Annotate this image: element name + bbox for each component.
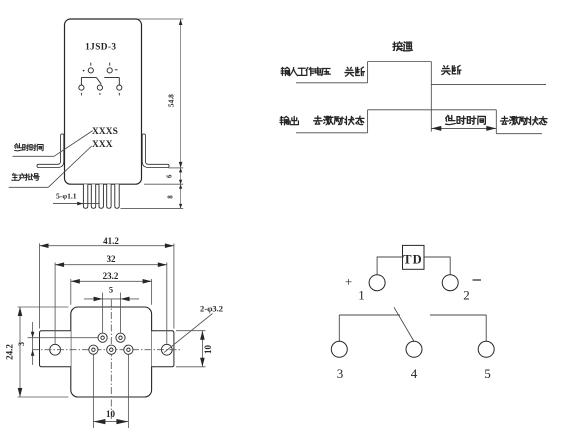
svg-text:3: 3 bbox=[17, 342, 26, 346]
wire drop to terminal 3 bbox=[338, 315, 340, 341]
dimension 41.2 bbox=[40, 245, 174, 247]
extension line right hole up bbox=[166, 262, 168, 344]
extension line body right up bbox=[151, 279, 153, 305]
pin number mark 2 bbox=[109, 63, 111, 66]
input waveform rising edge bbox=[367, 62, 369, 83]
svg-text:5-φ1.1: 5-φ1.1 bbox=[56, 192, 77, 201]
dimension 23.2 bbox=[71, 280, 152, 282]
pin 4 (side view) bbox=[107, 184, 111, 208]
dimension 10 (tab height) bbox=[201, 331, 203, 367]
label 生产批号 (production batch no.) bbox=[12, 173, 40, 180]
extension line right tab outer up bbox=[173, 243, 175, 328]
label 关断 (off) left bbox=[345, 67, 364, 76]
right mounting hole φ3.2 bbox=[161, 344, 172, 355]
pin 2 (side view) bbox=[91, 184, 95, 208]
wire contact bar left bbox=[339, 314, 400, 316]
contact circle 3 (marking) bbox=[79, 85, 84, 90]
extension line pin2 up bbox=[120, 293, 122, 334]
pin 5 (bottom view) bbox=[124, 345, 133, 354]
terminal circle 1 bbox=[369, 275, 385, 291]
relay body outline (side view) bbox=[65, 19, 142, 184]
svg-text:10: 10 bbox=[106, 409, 116, 419]
terminal circle 2 bbox=[442, 275, 458, 291]
pin number mark 4 bbox=[99, 93, 101, 95]
svg-text:TD: TD bbox=[403, 253, 423, 267]
extension line right tab bottom bbox=[176, 366, 206, 368]
left mounting tab bbox=[40, 331, 71, 367]
label 去激励状态 (de-energized) left bbox=[314, 116, 364, 125]
delay dimension arrow line bbox=[431, 127, 496, 129]
dimension 3 bbox=[32, 322, 34, 365]
svg-text:5: 5 bbox=[484, 366, 491, 381]
input waveform high bbox=[368, 61, 432, 63]
label 延时时间 (delay time) bbox=[446, 115, 486, 124]
output waveform high bbox=[368, 109, 497, 111]
output waveform low-right bbox=[496, 133, 542, 135]
svg-text:2-φ3.2: 2-φ3.2 bbox=[200, 304, 223, 314]
right mounting bracket bbox=[144, 136, 168, 166]
svg-text:24.2: 24.2 bbox=[5, 344, 15, 360]
extension line body left up bbox=[70, 279, 72, 305]
svg-text:5: 5 bbox=[109, 285, 113, 295]
leader underline for 延时时间 bbox=[13, 155, 55, 157]
output waveform low-left bbox=[296, 132, 368, 134]
wire: contact 3 riser bbox=[80, 78, 82, 86]
svg-text:23.2: 23.2 bbox=[103, 271, 119, 281]
dimension line 54.8/6/8 bbox=[180, 19, 182, 208]
extension line bracket bottom bbox=[169, 167, 184, 169]
svg-text:XXX: XXX bbox=[92, 140, 113, 150]
extension line body bottom bbox=[144, 183, 183, 185]
svg-text:4: 4 bbox=[411, 366, 418, 381]
label 关断 (off) right bbox=[442, 65, 461, 74]
leader line to right hole bbox=[164, 314, 213, 353]
output waveform falling edge bbox=[495, 110, 497, 134]
extension line left tab outer up bbox=[39, 243, 41, 328]
input waveform low-left bbox=[296, 82, 368, 84]
extension line top pin row left bbox=[28, 337, 99, 339]
dimension 24.2 bbox=[19, 307, 21, 397]
wire TD to terminal 1 bbox=[377, 257, 402, 275]
leader arrow to pins bbox=[53, 203, 100, 205]
svg-text:1: 1 bbox=[358, 288, 365, 303]
wire drop to terminal 5 bbox=[485, 315, 487, 341]
coil terminal circle 2 (marking) bbox=[107, 68, 112, 73]
leader line to XXX bbox=[48, 146, 91, 187]
dimension 5 bbox=[84, 298, 139, 300]
pin number mark 3 bbox=[80, 93, 82, 96]
switch arm bbox=[394, 307, 414, 341]
dimension 32 bbox=[55, 264, 167, 266]
svg-text:32: 32 bbox=[107, 254, 117, 264]
svg-text:+: + bbox=[345, 274, 352, 289]
extension line body bottom left bbox=[18, 396, 69, 398]
svg-text:XXXS: XXXS bbox=[92, 127, 118, 137]
input waveform falling edge + extension bbox=[430, 62, 432, 132]
dimension 10 (bottom pins) bbox=[93, 421, 128, 423]
label 延时时间 (delay time) bbox=[15, 144, 43, 151]
pin number mark 1 bbox=[90, 63, 92, 66]
input waveform low-right bbox=[431, 84, 546, 86]
wire: common bar right bbox=[104, 77, 119, 79]
wire contact bar right bbox=[430, 314, 486, 316]
svg-text:8: 8 bbox=[167, 195, 175, 199]
terminal circle 4 bbox=[406, 341, 422, 357]
label 去激励状态 (de-energized) right bbox=[500, 116, 547, 125]
extension line pin1 up bbox=[102, 293, 104, 334]
output waveform rising edge bbox=[367, 110, 369, 133]
svg-text:3: 3 bbox=[337, 366, 344, 381]
polarity - bbox=[473, 279, 482, 281]
svg-text:2: 2 bbox=[463, 288, 470, 303]
terminal circle 3 bbox=[331, 341, 347, 357]
label 输入工作电压 (input working voltage) bbox=[281, 67, 330, 76]
relay body outline (bottom view) bbox=[71, 307, 152, 397]
switch arm (marking) bbox=[96, 78, 101, 85]
pin 3 (bottom view) bbox=[89, 345, 98, 354]
wire: common bar left bbox=[81, 77, 96, 79]
extension line left hole up bbox=[54, 262, 56, 344]
leader line to XXXS bbox=[54, 131, 93, 157]
leader underline for 生产批号 bbox=[9, 186, 49, 188]
pin 1 (side view) bbox=[83, 184, 87, 208]
svg-text:54.8: 54.8 bbox=[167, 94, 176, 107]
right mounting tab bbox=[152, 331, 174, 367]
label 输出 (output) bbox=[280, 116, 298, 124]
extension line body top bbox=[137, 18, 183, 20]
pin number mark 5 bbox=[118, 93, 120, 96]
timer element TD box bbox=[403, 245, 425, 269]
wire: contact 5 riser bbox=[118, 78, 120, 86]
polarity dot + bbox=[83, 70, 85, 72]
polarity dash - bbox=[115, 69, 118, 71]
pin 3 (side view) bbox=[99, 184, 103, 208]
svg-text:41.2: 41.2 bbox=[103, 236, 119, 246]
extension line pin tips bbox=[121, 207, 184, 209]
contact circle 5 (marking) bbox=[117, 85, 122, 90]
horizontal centerline bbox=[32, 349, 182, 351]
coil terminal circle 1 (marking) bbox=[88, 68, 93, 73]
extension line body top left bbox=[18, 306, 69, 308]
wire TD to terminal 2 bbox=[424, 257, 450, 275]
contact circle 4 (marking) bbox=[97, 85, 102, 90]
label 接通 (on) bbox=[393, 42, 413, 51]
svg-text:10: 10 bbox=[203, 345, 213, 355]
pin 5 (side view) bbox=[115, 184, 119, 208]
terminal circle 5 bbox=[478, 341, 494, 357]
left mounting bracket bbox=[39, 136, 63, 166]
svg-text:6: 6 bbox=[166, 174, 174, 178]
left mounting hole φ3.2 bbox=[50, 344, 61, 355]
extension line right tab top bbox=[176, 330, 206, 332]
pin 1 (bottom view) bbox=[98, 333, 107, 342]
pin 2 (bottom view) bbox=[116, 333, 125, 342]
extension line pin5 down bbox=[127, 355, 129, 429]
pin 4 (bottom view) bbox=[107, 345, 116, 354]
extension line pin3 down bbox=[92, 355, 94, 429]
vertical centerline bbox=[110, 300, 112, 421]
svg-text:1JSD-3: 1JSD-3 bbox=[85, 43, 116, 53]
